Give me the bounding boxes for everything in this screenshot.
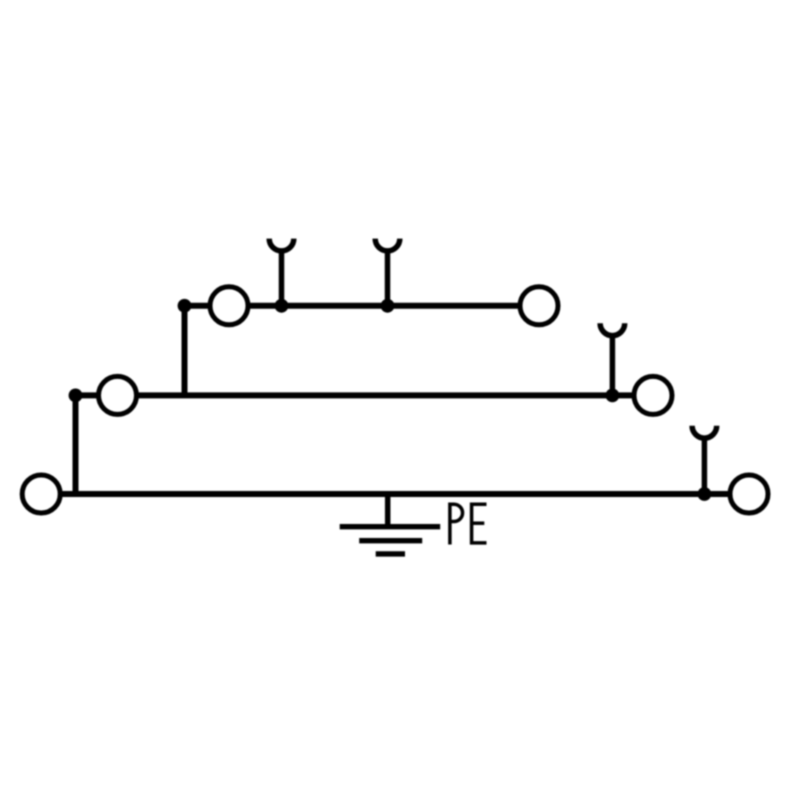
test socket tap 4 bbox=[692, 426, 717, 494]
wire level3 main PE bbox=[61, 491, 729, 497]
wire vertical connector level2 to level3 bbox=[73, 395, 79, 494]
junction dot tap2 bbox=[381, 299, 395, 313]
wire level1 main bbox=[249, 303, 519, 309]
junction dot level2 left bbox=[69, 389, 83, 403]
wire vertical connector level1 to level2 bbox=[182, 306, 188, 396]
net label PE bbox=[450, 504, 487, 544]
test socket tap 2 bbox=[375, 239, 400, 306]
terminal circle bottom-left bbox=[22, 475, 60, 513]
junction dot tap3 bbox=[606, 389, 620, 403]
terminal circle top-left bbox=[210, 287, 248, 325]
test socket tap 1 bbox=[269, 239, 294, 306]
wire level1 segment dot to terminal bbox=[185, 303, 210, 309]
ground PE symbol bbox=[340, 494, 441, 554]
terminal circle top-right bbox=[520, 287, 558, 325]
junction dot tap4 bbox=[698, 487, 712, 501]
terminal circle middle-right bbox=[634, 376, 672, 414]
wire level2 main bbox=[138, 392, 634, 398]
terminal circle middle-left bbox=[99, 376, 137, 414]
terminal circle bottom-right bbox=[730, 475, 768, 513]
junction dot tap1 bbox=[275, 299, 289, 313]
junction dot level1 left bbox=[178, 299, 192, 313]
test socket tap 3 bbox=[600, 323, 625, 395]
wire level2 segment dot to terminal bbox=[76, 392, 99, 398]
